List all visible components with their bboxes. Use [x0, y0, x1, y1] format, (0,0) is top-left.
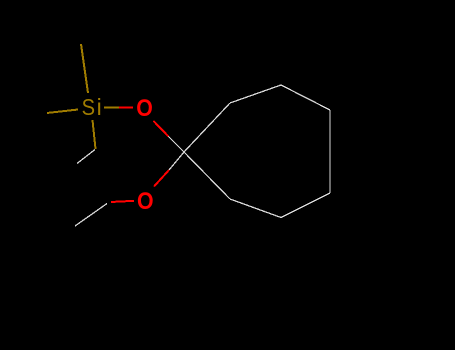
bond C-D right vertical	[329, 110, 331, 193]
atom Si	[82, 94, 95, 121]
svg-text:S: S	[82, 94, 95, 121]
atom O2	[137, 187, 154, 215]
bond CH2-CH3 ethyl stub (white)	[77, 150, 95, 164]
bond Si-O1 olive half	[104, 107, 119, 109]
bond E-F	[230, 199, 281, 218]
svg-text:i: i	[97, 94, 102, 120]
bond Si-O1 red half	[119, 107, 133, 109]
bond C1-O2 red half	[154, 170, 169, 187]
bond A-B	[230, 85, 281, 103]
bond C1-A	[184, 103, 230, 152]
bond Si down to CH2	[93, 120, 96, 149]
bond Si methyl left	[47, 110, 78, 114]
bond D-E	[281, 193, 330, 218]
bond O1-C1 white half	[169, 137, 185, 153]
bond O2-CH2 (red)	[111, 201, 134, 202]
svg-text:O: O	[136, 93, 153, 121]
bond F-C1	[184, 152, 230, 199]
bond Si methyl up	[81, 44, 88, 93]
svg-text:O: O	[137, 187, 154, 215]
bond C1-O2 white half	[169, 152, 184, 170]
bond ethoxy CH2-CH3 tail (white)	[75, 204, 107, 227]
bond O1-C1 red half	[154, 121, 169, 137]
atom O1	[136, 93, 153, 121]
bond B-C	[281, 85, 330, 110]
